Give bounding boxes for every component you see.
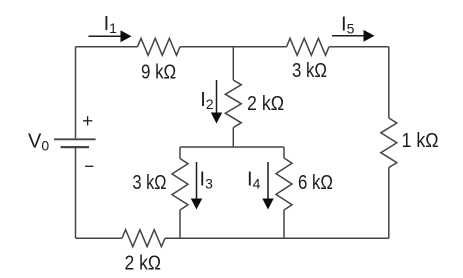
wire: middle drop upper [232, 47, 234, 80]
wire: right side upper [388, 47, 390, 118]
svg-text:I2: I2 [200, 89, 214, 112]
svg-text:3 kΩ: 3 kΩ [133, 172, 167, 194]
resistor 2k middle zigzag [225, 80, 241, 128]
current arrow I5 [332, 30, 375, 42]
wire: inner top bus [180, 146, 284, 148]
svg-text:1 kΩ: 1 kΩ [402, 130, 439, 152]
svg-text:I3: I3 [200, 169, 214, 192]
battery V0 long plate [54, 138, 96, 140]
battery V0 short plate [61, 146, 89, 148]
wire: top right segment [329, 46, 389, 48]
current arrow I4 [262, 162, 273, 210]
svg-text:I4: I4 [247, 169, 261, 192]
wire: right branch bottom lead [283, 210, 285, 238]
wire: left branch bottom lead [179, 210, 181, 238]
resistor 6k zigzag [276, 158, 292, 210]
wire: top middle segment [180, 46, 287, 48]
wire: left branch top lead [179, 147, 181, 159]
svg-text:I5: I5 [341, 14, 355, 37]
svg-text:2 kΩ: 2 kΩ [247, 93, 284, 115]
wire: left side lower [75, 147, 77, 238]
battery plus sign [83, 116, 92, 125]
wire: right branch top lead [283, 147, 285, 158]
resistor 1k zigzag [381, 118, 397, 168]
svg-text:9 kΩ: 9 kΩ [141, 61, 176, 83]
resistor 3k top zigzag [287, 38, 330, 55]
current arrow I1 [89, 30, 132, 42]
wire: left side upper [75, 47, 77, 139]
current arrow I3 [191, 162, 202, 210]
battery minus sign [85, 165, 94, 167]
svg-text:3 kΩ: 3 kΩ [292, 60, 327, 82]
svg-text:2 kΩ: 2 kΩ [125, 253, 162, 275]
wire: middle drop lower [232, 128, 234, 148]
wire: bottom left segment [76, 237, 123, 239]
wire: top left segment [76, 46, 138, 48]
svg-text:I1: I1 [104, 13, 118, 36]
current arrow I2 [211, 80, 222, 124]
resistor 3k left zigzag [172, 159, 188, 211]
svg-text:V0: V0 [28, 131, 49, 154]
svg-text:6 kΩ: 6 kΩ [298, 172, 333, 194]
wire: bottom right segment [165, 237, 389, 239]
resistor 2k bottom zigzag [122, 230, 165, 247]
wire: right side lower [388, 168, 390, 239]
resistor 9k zigzag [138, 38, 181, 55]
